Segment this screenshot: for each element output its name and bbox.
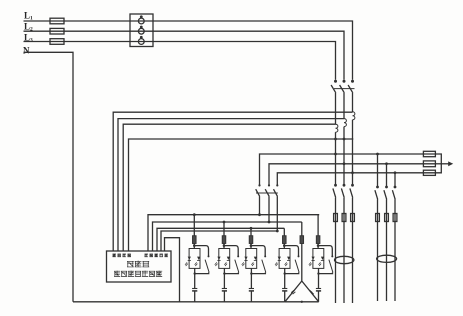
wire phase drop to cap group 1 pole 3 (352, 173, 354, 185)
wire bypass contact feed 1 (194, 246, 208, 256)
wire R6 to delta apex (301, 244, 303, 282)
wire CT secondary s3 (123, 124, 335, 251)
contact blade 3 (262, 260, 266, 273)
wire bus C (277, 173, 435, 185)
fuse FU1-1 capacitor branch (334, 214, 338, 222)
wire to neutral bus 4 (284, 276, 286, 302)
junction H1-branch1 (193, 213, 196, 216)
capacitor bank C1 (three-phase) (335, 256, 354, 263)
wire bus A (260, 154, 436, 185)
fuse FU2-2 capacitor branch (385, 214, 389, 222)
arrow outgoing feeder (448, 161, 453, 166)
wire SSR 3 output (250, 268, 252, 276)
wire R1 to SSR (193, 244, 195, 249)
junction L-bus B (343, 162, 346, 165)
junction L-bus A (334, 153, 337, 156)
junction drop C - H4 (276, 230, 279, 233)
fuse FU1 on L1 (50, 18, 64, 24)
contact blade 2 (235, 260, 239, 273)
wire CT common s4 (129, 139, 354, 251)
wire tap to switch QF2 pole 2 (386, 164, 388, 187)
wire feed branch 2 (223, 222, 225, 236)
solid-state relay U1 box (189, 249, 200, 269)
wire R4 to SSR (283, 244, 285, 249)
junction H3-branch3 (250, 227, 253, 230)
controller terminal labels right (145, 254, 168, 257)
meter element P2 on L2 (138, 28, 144, 34)
opto-triac left U2 (217, 257, 220, 260)
resistor R6 (300, 236, 304, 244)
contact blade 1 (205, 260, 209, 273)
fuse FU5 on bus B (423, 161, 435, 167)
wire R3 to SSR (250, 244, 252, 249)
contact blade 4 (295, 260, 299, 273)
resistor R2 (222, 236, 226, 244)
opto-triac left U1 (188, 257, 191, 260)
junction H2-branch2 (223, 221, 226, 224)
junction delta base (301, 301, 303, 303)
fuse FU1-3 capacitor branch (351, 214, 355, 222)
switch QS linkage (334, 88, 355, 90)
opto-triac left U4 (278, 257, 281, 260)
wire SSR 4 output (284, 268, 286, 276)
wire bypass contact feed 5 (318, 246, 332, 256)
wire feed branch 3 (250, 228, 252, 235)
wire N neutral (24, 52, 74, 301)
junction bus tap 2-1 (376, 153, 379, 156)
wire tap to switch QF2 pole 3 (394, 173, 396, 187)
wire contact bottom 2 (224, 272, 238, 273)
wire capacitor branch 1-3 (352, 198, 354, 303)
wire feed branch 5 (317, 215, 319, 236)
fuse FU3 on L3 (50, 39, 64, 45)
tick marks left side (291, 290, 295, 294)
contact blade 5 (329, 260, 333, 273)
wire tap to switch QF2 pole 1 (377, 154, 379, 187)
wire capacitor branch 2-2 (386, 199, 388, 301)
switch QF1 pole 2 (343, 184, 346, 187)
switch QS pole 3 (351, 80, 354, 83)
capacitor C2 plates (222, 288, 227, 290)
switch QS pole 2 (343, 80, 346, 83)
opto-triac right U1 (197, 257, 200, 260)
resistor R5 (316, 236, 320, 244)
resistor R4 (283, 236, 287, 244)
fuse FU1-2 capacitor branch (342, 214, 346, 222)
opto-triac right U2 (227, 257, 230, 260)
wire to neutral bus 2 (223, 276, 225, 302)
wire capacitor branch 1-2 (343, 198, 345, 303)
contactor KM pole 1 (258, 184, 260, 186)
delta connection triangle (285, 281, 319, 302)
opto-triac right U3 (254, 257, 257, 260)
contactor KM pole 3 (276, 184, 278, 186)
wire contact bottom 4 (285, 272, 299, 273)
junction bus tap 2-3 (394, 171, 397, 174)
switch QF2 pole 1 (376, 186, 379, 189)
CT TA2 on phase line x=344 (343, 99, 345, 119)
switch QF2 pole 3 (394, 186, 397, 189)
wire to neutral bus 3 (250, 276, 252, 302)
controller title line 2 (reactive power compensation controller) (114, 271, 162, 277)
wire control H2 (153, 222, 302, 251)
controller title line 1 (intelligent type) (127, 261, 149, 267)
wire L3 phase bus (24, 42, 336, 80)
opto-triac right U4 (287, 257, 290, 260)
switch QF2 pole 2 (385, 186, 388, 189)
wire controller neutral to N bus (165, 238, 180, 302)
svg-text:N: N (23, 46, 30, 56)
contactor KM linkage (256, 192, 278, 194)
wire contact bottom 3 (251, 272, 265, 273)
controller U1 box (107, 251, 172, 282)
svg-text:L1: L1 (24, 11, 33, 22)
wire CT secondary s1 (113, 112, 352, 251)
wire SSR 1 output (194, 268, 196, 276)
wire feed branch 4 (283, 228, 285, 235)
wire R5 to SSR (317, 244, 319, 249)
wire L1 phase bus (24, 21, 353, 80)
wire control H3 (157, 228, 284, 251)
solid-state relay U2 box (219, 249, 230, 269)
capacitor C4 plates (282, 288, 287, 290)
wire bypass contact feed 4 (284, 246, 298, 256)
wire L2 phase bus (24, 31, 345, 80)
tick marks right side (310, 290, 314, 294)
wire bypass contact feed 2 (224, 246, 238, 256)
capacitor bank C2 (three-phase) (377, 255, 397, 262)
switch QF1 pole 1 (334, 184, 337, 187)
wire bypass contact feed 3 (251, 246, 265, 256)
wire phase drop to cap group 1 pole 2 (343, 164, 345, 185)
wire capacitor branch 1-1 (335, 198, 337, 303)
opto-triac right U5 (321, 257, 324, 260)
wire phase drop to cap group 1 pole 1 (335, 154, 337, 185)
wire CT secondary s2 (118, 119, 344, 251)
fuse FU6 on bus C (423, 170, 435, 175)
wire bus merge to feeder (435, 154, 441, 173)
junction s4-TA3 (334, 138, 337, 141)
controller terminal labels left (113, 254, 131, 257)
wire branch 5 feed (301, 222, 303, 236)
switch QF1 pole 3 (351, 184, 354, 187)
opto-triac left U5 (312, 257, 315, 260)
resistor R1 (193, 236, 197, 244)
junction bus tap 2-2 (385, 162, 388, 165)
switch QS pole 1 (334, 80, 337, 83)
junction L-bus C (351, 171, 354, 174)
fuse FU2 on L2 (50, 28, 64, 34)
fuse FU4 on bus A (423, 151, 435, 156)
capacitor C3 plates (249, 288, 254, 290)
junction s4-TA2 (343, 138, 346, 141)
fuse FU2-1 capacitor branch (376, 214, 380, 222)
solid-state relay U3 box (246, 249, 257, 269)
wire capacitor branch 2-1 (377, 199, 379, 301)
junction drop A - H1 (258, 213, 261, 216)
wire control H1 (148, 215, 319, 251)
junction drop B - H2 (268, 221, 271, 224)
wire bottom neutral bus (73, 301, 285, 303)
wire SSR 2 output (223, 268, 225, 276)
opto-triac left U3 (244, 257, 247, 260)
wire to neutral bus 1 (194, 276, 196, 302)
wire bus B (269, 164, 435, 185)
wire contact bottom 1 (195, 272, 209, 273)
solid-state relay U5 box (313, 249, 324, 269)
capacitor C5 plates (316, 288, 321, 290)
metering box TA (130, 14, 153, 47)
wire SSR 5 output (318, 268, 320, 276)
meter element P1 on L1 (138, 18, 144, 24)
wire to neutral bus 5 (318, 276, 320, 302)
CT TA1 on phase line x=352.5 (352, 99, 354, 112)
wire contact bottom 5 (319, 272, 333, 273)
resistor R3 (249, 236, 253, 244)
solid-state relay U4 box (279, 249, 290, 269)
contactor KM pole 2 (268, 184, 270, 186)
wire capacitor branch 2-3 (394, 199, 396, 301)
fuse FU2-3 capacitor branch (393, 214, 397, 222)
wire control H4 (161, 231, 277, 251)
wire feed branch 1 (193, 215, 195, 236)
meter element P3 on L3 (138, 39, 144, 45)
capacitor C1 plates (192, 288, 197, 290)
CT TA3 on phase line x=335.5 (335, 99, 337, 125)
wire R2 to SSR (223, 244, 225, 249)
